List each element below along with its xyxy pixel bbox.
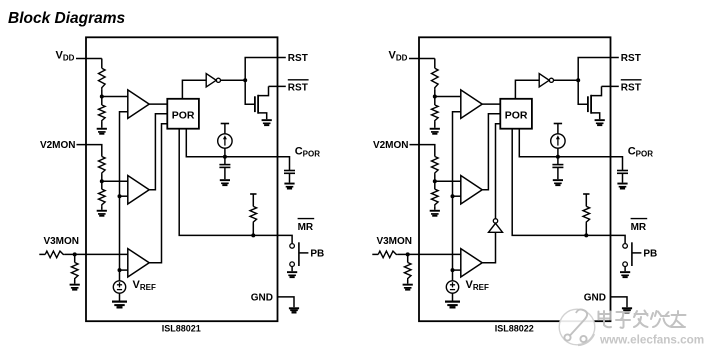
resistor R5b (series) [ISL88022]: [378, 251, 398, 258]
current source I1 [ISL88021]: [218, 134, 232, 148]
svg-text:GND: GND: [584, 292, 606, 303]
svg-text:V3MON: V3MON: [376, 236, 412, 247]
pin label MR-bar [ISL88022]: [631, 219, 648, 233]
wire node B to comparator U1B + [ISL88022]: [435, 180, 461, 182]
wire POR to MR net [ISL88022]: [512, 129, 625, 244]
svg-text:MR: MR: [298, 222, 314, 233]
resistor R1b [ISL88022]: [432, 68, 439, 89]
svg-text:ISL88021: ISL88021: [162, 324, 201, 334]
ground under VREF [ISL88022]: [445, 301, 460, 309]
resistor R2b [ISL88022]: [432, 105, 439, 122]
node C junction [ISL88021]: [73, 252, 77, 256]
ground under R4 [ISL88022]: [430, 210, 440, 217]
op-amp U1B (V2MON comparator) [ISL88022]: [461, 176, 482, 205]
node D junction [ISL88021]: [243, 78, 247, 82]
current source I1 [ISL88022]: [551, 134, 565, 148]
wire U1B output riser [ISL88022]: [482, 114, 500, 190]
wire VREF to U1C - [ISL88021]: [120, 269, 128, 271]
resistor R4 [ISL88021]: [99, 189, 106, 206]
wire U1B output riser [ISL88021]: [149, 114, 167, 190]
svg-text:www.elecfans.com: www.elecfans.com: [599, 333, 704, 346]
ground under C2 [ISL88022]: [617, 183, 627, 190]
wire U1A output to POR [ISL88022]: [482, 103, 500, 105]
watermark logo circle: [559, 309, 595, 345]
wire VDD pin [ISL88021]: [76, 58, 102, 60]
wire POR to inverter U3 [ISL88022]: [515, 80, 539, 99]
wire VREF rail [ISL88021]: [120, 112, 128, 281]
ground under C2 [ISL88021]: [284, 183, 294, 190]
op-amp U1C (V3MON comparator) [ISL88021]: [128, 249, 149, 277]
op-amp U1A (VDD comparator) [ISL88022]: [461, 90, 482, 119]
ground at GND pin [ISL88022]: [622, 307, 632, 313]
inverter U3 [ISL88021]: [206, 74, 220, 87]
resistor R3b [ISL88022]: [432, 157, 439, 175]
node VREF-U1C junction [ISL88022]: [451, 268, 455, 272]
wire VDD to R1 [ISL88021]: [101, 59, 103, 69]
wire R4 to ground [ISL88022]: [434, 206, 436, 210]
wire node C to R6 [ISL88022]: [407, 254, 409, 262]
pushbutton S1 [ISL88021]: [290, 242, 309, 266]
wire R1 to node A [ISL88021]: [101, 89, 103, 105]
wire R5 to node C [ISL88022]: [398, 253, 408, 255]
resistor R6 [ISL88021]: [71, 263, 78, 281]
supply rail bar for I1 [ISL88021]: [221, 123, 229, 125]
wire V3MON lead [ISL88021]: [39, 253, 45, 255]
ground under C1 [ISL88022]: [553, 179, 563, 186]
wire U1C output to inverter U8 [ISL88022]: [482, 232, 495, 262]
wire I1 to node E [ISL88021]: [224, 148, 226, 164]
wire POR to MR net [ISL88021]: [179, 129, 292, 244]
svg-text:ISL88022: ISL88022: [495, 324, 534, 334]
ground under S1 [ISL88021]: [287, 271, 297, 278]
wire rail to I1 [ISL88021]: [224, 124, 226, 134]
supply rail bar for R7 [ISL88021]: [250, 193, 256, 195]
ground under R6 [ISL88021]: [70, 284, 80, 291]
svg-text:V2MON: V2MON: [40, 140, 76, 151]
node F junction [ISL88022]: [584, 233, 588, 237]
node D junction [ISL88022]: [576, 78, 580, 82]
svg-text:RST: RST: [621, 53, 641, 64]
node VREF-U1C junction [ISL88021]: [118, 268, 122, 272]
node VREF-U1B junction [ISL88022]: [451, 194, 455, 198]
resistor R1 [ISL88021]: [99, 68, 106, 89]
supply rail bar for I1 [ISL88022]: [554, 123, 562, 125]
wire I1 to node E [ISL88022]: [557, 148, 559, 164]
wire V3MON lead [ISL88022]: [372, 253, 378, 255]
wire U1A output to POR [ISL88021]: [149, 103, 167, 105]
capacitor C2 (external) [ISL88021]: [284, 171, 295, 183]
supply rail bar for R7 [ISL88022]: [583, 193, 589, 195]
capacitor C1 [ISL88022]: [552, 165, 563, 180]
inverter U8 (open-drain stage) [ISL88022]: [489, 219, 503, 233]
wire node D to Q1 gate [ISL88021]: [245, 80, 255, 104]
wire R3 to node B [ISL88021]: [101, 175, 103, 190]
wire R5 to node C [ISL88021]: [65, 253, 75, 255]
wire rail to I1 [ISL88022]: [557, 124, 559, 134]
watermark CJK text: [599, 311, 686, 328]
resistor R6b [ISL88022]: [404, 263, 411, 281]
wire POR to inverter U3 [ISL88021]: [182, 80, 206, 99]
wire Q1 drain to RSTB pin [ISL88021]: [269, 85, 286, 87]
svg-text:PB: PB: [643, 249, 657, 260]
ground under S1 [ISL88022]: [620, 271, 630, 278]
node C junction [ISL88022]: [406, 252, 410, 256]
svg-text:Block Diagrams: Block Diagrams: [8, 10, 126, 27]
ground under R2 [ISL88021]: [97, 128, 107, 135]
wire R2 to ground [ISL88022]: [434, 122, 436, 128]
node A junction [ISL88021]: [100, 95, 104, 99]
pin label MR-bar [ISL88021]: [298, 219, 315, 233]
resistor R2 [ISL88021]: [99, 105, 106, 122]
ground under C1 [ISL88021]: [220, 179, 230, 186]
POR block U2 ISL88022 [ISL88022]: [500, 99, 532, 129]
wire GND pin [ISL88021]: [278, 297, 295, 307]
voltage source VREF [ISL88022]: [446, 281, 458, 293]
svg-text:POR: POR: [172, 109, 195, 121]
capacitor C1 [ISL88021]: [219, 165, 230, 180]
voltage source VREF [ISL88021]: [113, 281, 125, 293]
wire node A to comparator U1A + [ISL88021]: [102, 96, 128, 98]
wire VREF to U1B - [ISL88021]: [120, 195, 128, 197]
svg-text:GND: GND: [251, 292, 273, 303]
capacitor C2 (external) [ISL88022]: [617, 171, 628, 183]
wire VREF rail [ISL88022]: [453, 112, 461, 281]
wire VREF source to ground [ISL88022]: [452, 293, 454, 300]
wire U1C output riser [ISL88021]: [149, 124, 167, 263]
svg-text:PB: PB: [310, 249, 324, 260]
node A junction [ISL88022]: [433, 95, 437, 99]
svg-text:MR: MR: [631, 222, 647, 233]
op-amp U1B (V2MON comparator) [ISL88021]: [128, 176, 149, 205]
wire node D to RST pin [ISL88022]: [578, 58, 619, 81]
wire VREF to U1C - [ISL88022]: [453, 269, 461, 271]
wire rail to R7 [ISL88021]: [252, 194, 254, 206]
chip outline box ISL88021 [ISL88021]: [86, 37, 278, 321]
wire VREF source to ground [ISL88021]: [119, 293, 121, 300]
node B junction [ISL88021]: [100, 179, 104, 183]
ground under R4 [ISL88021]: [97, 210, 107, 217]
wire node C to comparator U1C + [ISL88022]: [408, 253, 461, 255]
resistor R4b [ISL88022]: [432, 189, 439, 206]
wire VDD to R1 [ISL88022]: [434, 59, 436, 69]
wire rail to R7 [ISL88022]: [585, 194, 587, 206]
node E junction [ISL88022]: [556, 155, 560, 159]
svg-text:POR: POR: [505, 109, 528, 121]
svg-text:RST: RST: [288, 53, 308, 64]
op-amp U1A (VDD comparator) [ISL88021]: [128, 90, 149, 119]
resistor R5 (series) [ISL88021]: [45, 251, 65, 258]
pushbutton S1b [ISL88022]: [623, 242, 642, 266]
wire V2MON pin [ISL88022]: [410, 145, 435, 157]
transistor Q1 (open-drain NFET) [ISL88021]: [255, 86, 269, 119]
wire node C to comparator U1C + [ISL88021]: [75, 253, 128, 255]
wire U3 output [ISL88021]: [221, 79, 246, 81]
ground under R6 [ISL88022]: [403, 284, 413, 291]
wire S1 to ground [ISL88021]: [291, 267, 293, 272]
wire node B to comparator U1B + [ISL88021]: [102, 180, 128, 182]
wire R7 to MR net [ISL88022]: [585, 224, 587, 236]
pin label RST-bar [ISL88021]: [288, 80, 309, 94]
wire R7 to MR net [ISL88021]: [252, 224, 254, 236]
wire Q1 drain to RSTB pin [ISL88022]: [602, 85, 619, 87]
POR block U2 ISL88021 [ISL88021]: [167, 99, 199, 129]
svg-text:V2MON: V2MON: [373, 140, 409, 151]
node B junction [ISL88022]: [433, 179, 437, 183]
node F junction [ISL88021]: [251, 233, 255, 237]
wire R4 to ground [ISL88021]: [101, 206, 103, 210]
wire R1 to node A [ISL88022]: [434, 89, 436, 105]
node VREF-U1B junction [ISL88021]: [118, 194, 122, 198]
wire R6 to ground [ISL88021]: [74, 280, 76, 284]
wire VREF to U1B - [ISL88022]: [453, 195, 461, 197]
ground under VREF [ISL88021]: [112, 301, 127, 309]
wire R2 to ground [ISL88021]: [101, 122, 103, 128]
resistor R7b (MR pull-up) [ISL88022]: [583, 206, 590, 223]
wire inverter U8 to POR [ISL88022]: [496, 124, 501, 219]
inverter U3 [ISL88022]: [539, 74, 553, 87]
ground under R2 [ISL88022]: [430, 128, 440, 135]
resistor R3 [ISL88021]: [99, 157, 106, 175]
op-amp U1C (V3MON comparator) [ISL88022]: [461, 249, 482, 277]
resistor R7 (MR pull-up) [ISL88021]: [250, 206, 257, 223]
ground at GND pin [ISL88021]: [289, 307, 299, 313]
wire CPOR net [ISL88022]: [519, 129, 622, 171]
wire VDD pin [ISL88022]: [409, 58, 435, 60]
wire S1 to ground [ISL88022]: [624, 267, 626, 272]
pin label RST-bar [ISL88022]: [621, 80, 642, 94]
wire R6 to ground [ISL88022]: [407, 280, 409, 284]
transistor Q1 (open-drain NFET) [ISL88022]: [588, 86, 602, 119]
wire node D to Q1 gate [ISL88022]: [578, 80, 588, 104]
wire node C to R6 [ISL88021]: [74, 254, 76, 262]
wire R3 to node B [ISL88022]: [434, 175, 436, 190]
svg-text:RST: RST: [621, 82, 641, 93]
ground at Q1 source [ISL88022]: [595, 119, 605, 126]
wire node D to RST pin [ISL88021]: [245, 58, 286, 81]
wire CPOR net [ISL88021]: [186, 129, 289, 171]
svg-text:V3MON: V3MON: [43, 236, 79, 247]
svg-text:RST: RST: [288, 82, 308, 93]
wire V2MON pin [ISL88021]: [77, 145, 102, 157]
chip outline box ISL88022 [ISL88022]: [419, 37, 611, 321]
node E junction [ISL88021]: [223, 155, 227, 159]
wire node A to comparator U1A + [ISL88022]: [435, 96, 461, 98]
ground at Q1 source [ISL88021]: [262, 119, 272, 126]
wire U3 output [ISL88022]: [554, 79, 579, 81]
wire GND pin [ISL88022]: [611, 297, 628, 307]
